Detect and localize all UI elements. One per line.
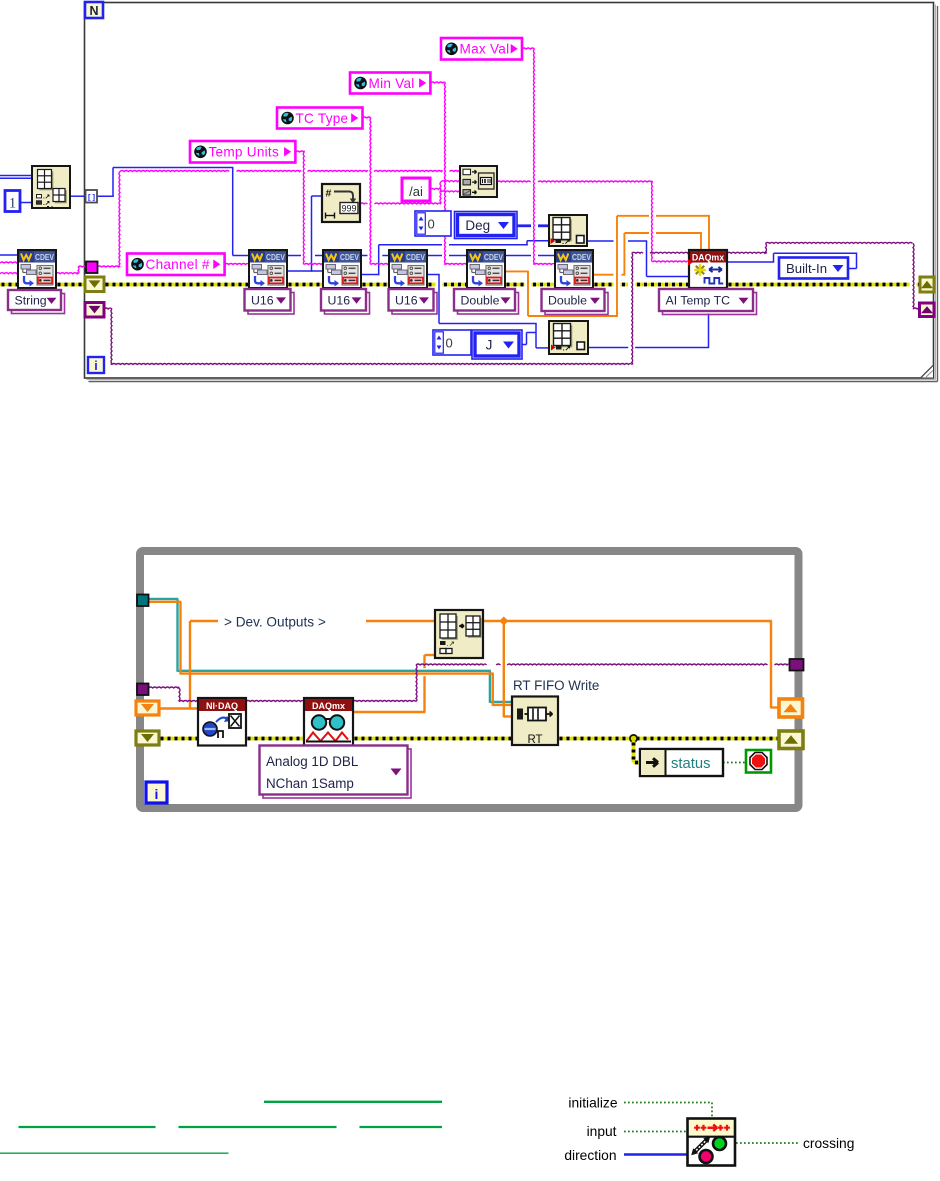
svg-text:TC Type: TC Type bbox=[296, 111, 349, 126]
iteration terminal i while bbox=[146, 782, 167, 803]
wire J ring to icon3 bbox=[522, 344, 527, 346]
index array icon2 bbox=[549, 215, 587, 246]
VI1 CDEV U16 bbox=[249, 250, 287, 288]
wire 999 icon out to format icon bbox=[360, 203, 368, 204]
svg-text:NI·DAQ: NI·DAQ bbox=[206, 701, 238, 711]
ring U16 third bbox=[392, 293, 437, 315]
ring Analog 1D DBL NChan 1Samp bbox=[263, 749, 411, 798]
VI3 CDEV U16 bbox=[389, 250, 427, 288]
wire format icon out to DAQmx bbox=[497, 181, 531, 182]
status indicator bbox=[640, 749, 723, 776]
svg-text:DAQmx: DAQmx bbox=[312, 701, 345, 711]
ring AI Temp TC bbox=[663, 293, 757, 315]
ring Double first bbox=[458, 293, 519, 315]
svg-text:#: # bbox=[326, 188, 332, 200]
wire orange DAQmx read out to convert icon bbox=[353, 711, 425, 713]
VI5 CDEV Double bbox=[555, 250, 593, 288]
svg-text:i: i bbox=[94, 359, 97, 373]
wire crossing dotted bbox=[736, 1142, 799, 1144]
green rule mid left bbox=[19, 1126, 156, 1128]
svg-text:Double: Double bbox=[461, 293, 500, 307]
svg-text:Analog 1D DBL: Analog 1D DBL bbox=[266, 754, 358, 769]
svg-text:CDEV: CDEV bbox=[35, 253, 54, 262]
wire blue chain VI1-VI2 bbox=[287, 255, 301, 257]
tunnel teal left bbox=[137, 595, 149, 607]
DAQmx create channel VI bbox=[689, 250, 727, 288]
svg-text:Deg: Deg bbox=[465, 218, 490, 233]
svg-text:J: J bbox=[486, 337, 493, 352]
svg-text:CDEV: CDEV bbox=[266, 253, 285, 262]
svg-text:0: 0 bbox=[446, 335, 453, 350]
svg-text:/ai: /ai bbox=[409, 184, 423, 199]
wire DAQmx to Built-In ring bbox=[727, 261, 774, 263]
wire orange data from tunnel bbox=[148, 601, 181, 603]
error wire main line bbox=[0, 283, 18, 287]
svg-text:initialize: initialize bbox=[568, 1096, 617, 1111]
svg-text:.↗: .↗ bbox=[563, 344, 571, 353]
ring Built-In bbox=[779, 258, 848, 279]
wire array into build-array icon bbox=[0, 175, 32, 177]
label Temp Units bbox=[190, 141, 295, 163]
ring U16 first bbox=[248, 293, 294, 315]
svg-text:.↗: .↗ bbox=[562, 237, 570, 246]
ring String bbox=[12, 294, 65, 314]
build array icon bbox=[32, 166, 70, 208]
svg-text:AI Temp TC: AI Temp TC bbox=[666, 294, 731, 308]
NI-DAQ VI bbox=[198, 698, 246, 746]
wire icon to tunnel bbox=[70, 195, 86, 197]
pink dot bbox=[698, 1149, 714, 1165]
shift register right olive bbox=[920, 277, 934, 292]
wire tunnel to VI chain bbox=[97, 195, 114, 197]
wire blue chain VI2-VI3 bbox=[361, 255, 368, 257]
wire direction blue bbox=[624, 1153, 687, 1155]
ring U16 second bbox=[325, 293, 370, 315]
wire icon2 to DAQmx bbox=[587, 240, 614, 242]
loop stop terminal bbox=[746, 750, 771, 773]
ring Double second bbox=[545, 293, 608, 315]
number-to-string 999 icon bbox=[322, 184, 360, 222]
wire VI2 out up to index icon2 bbox=[361, 274, 379, 276]
wire Temp Units down to VI2 bbox=[295, 151, 304, 152]
loop resize corner bbox=[921, 366, 933, 378]
svg-text:RT: RT bbox=[527, 734, 542, 746]
svg-text:Temp Units: Temp Units bbox=[209, 145, 280, 160]
wire orange VI5 to DAQmx bbox=[593, 274, 614, 276]
wire VI0 to magenta tunnel bbox=[56, 273, 78, 274]
shift register left olive bbox=[85, 277, 104, 292]
wire orange dev outputs bbox=[159, 707, 198, 709]
wire variant magenta into VI0 from edge bbox=[0, 262, 18, 263]
label Min Val bbox=[350, 73, 430, 94]
svg-text:crossing: crossing bbox=[803, 1136, 854, 1151]
VI2 CDEV U16 bbox=[323, 250, 361, 288]
svg-text:CDEV: CDEV bbox=[572, 253, 591, 262]
wire input dotted bbox=[624, 1131, 687, 1133]
svg-text:direction: direction bbox=[564, 1148, 616, 1163]
format into string icon bbox=[460, 166, 497, 197]
convert 2D array icon bbox=[435, 610, 483, 658]
wire Max Val down to VI5 bbox=[522, 48, 535, 49]
VI4 CDEV Double bbox=[467, 250, 505, 288]
label /ai constant bbox=[402, 178, 430, 201]
svg-text:Built-In: Built-In bbox=[786, 261, 827, 276]
loop count terminal N bbox=[85, 2, 103, 18]
label TC Type bbox=[277, 108, 363, 129]
wire orange VI4 to DAQmx bbox=[505, 270, 529, 272]
wire icon3 to AI Temp TC ring bbox=[588, 347, 628, 349]
index array icon3 bbox=[549, 321, 588, 354]
crossing VI icon bbox=[688, 1119, 736, 1166]
svg-text:0: 0 bbox=[428, 216, 435, 231]
svg-text:U16: U16 bbox=[328, 293, 351, 307]
green rule mid center bbox=[179, 1126, 337, 1128]
svg-text:Channel #: Channel # bbox=[146, 257, 210, 272]
svg-text:status: status bbox=[671, 756, 710, 772]
svg-text:i: i bbox=[155, 786, 159, 802]
svg-text:999: 999 bbox=[341, 204, 356, 214]
svg-text:> Dev. Outputs >: > Dev. Outputs > bbox=[224, 615, 326, 630]
wire /ai label to format icon bbox=[430, 188, 441, 189]
svg-text:N: N bbox=[89, 4, 98, 18]
wire initialize dotted bbox=[624, 1102, 712, 1104]
error junction to status bbox=[630, 735, 637, 742]
for loop N=channels border bbox=[85, 3, 934, 379]
green dot bbox=[712, 1136, 728, 1152]
while loop border bbox=[140, 551, 799, 808]
svg-text:Max Val: Max Val bbox=[460, 42, 510, 57]
constant 1 bbox=[5, 191, 20, 212]
wire blue chain VI4-VI5 bbox=[505, 255, 531, 257]
wire blue chain VI3-VI4 bbox=[427, 255, 442, 257]
svg-text:NChan 1Samp: NChan 1Samp bbox=[266, 776, 354, 791]
numeric 0 second bbox=[433, 330, 471, 355]
shift register orange right bbox=[779, 699, 803, 717]
svg-text:.↗: .↗ bbox=[447, 639, 455, 648]
svg-text:String: String bbox=[15, 294, 47, 308]
tunnel purple right bbox=[790, 659, 804, 671]
svg-text:U16: U16 bbox=[251, 293, 274, 307]
shift register olive left bbox=[136, 731, 159, 745]
svg-text:[ ]: [ ] bbox=[88, 193, 96, 202]
svg-text:Min Val: Min Val bbox=[369, 76, 415, 91]
svg-text:.↗: .↗ bbox=[43, 200, 51, 207]
numeric 0 first bbox=[415, 211, 451, 236]
RT FIFO write VI bbox=[512, 697, 558, 746]
svg-text:CDEV: CDEV bbox=[406, 253, 425, 262]
wire orange icon out to tunnel bbox=[483, 620, 772, 622]
green rule mid right bbox=[360, 1126, 443, 1128]
tunnel magenta variant bbox=[86, 262, 98, 274]
shift register left maroon bbox=[85, 303, 104, 318]
wire VI3 out down to icon3 bbox=[427, 274, 440, 276]
svg-text:CDEV: CDEV bbox=[340, 253, 359, 262]
label Max Val bbox=[441, 38, 522, 60]
label Channel # bbox=[127, 254, 225, 276]
wire blue into VI0 from edge bbox=[0, 254, 18, 256]
wire purple variant loop bbox=[149, 687, 179, 688]
wire constant 1 to icon bbox=[20, 202, 33, 204]
shift register orange left bbox=[136, 701, 159, 715]
wire purple shift register to DAQmx loop bbox=[104, 308, 112, 309]
svg-text:RT FIFO Write: RT FIFO Write bbox=[513, 678, 599, 693]
wire Deg ring to icon2 bbox=[517, 224, 531, 227]
ring J enum bbox=[472, 330, 522, 359]
wire teal task from tunnel bbox=[148, 598, 178, 600]
svg-text:DAQmx: DAQmx bbox=[692, 253, 724, 263]
green rule lower thin bbox=[0, 1152, 229, 1154]
svg-text:input: input bbox=[587, 1124, 617, 1139]
VI String CDEV bbox=[18, 250, 56, 288]
wire magenta tunnel to format icon bbox=[98, 266, 120, 267]
svg-text:CDEV: CDEV bbox=[484, 253, 503, 262]
svg-text:U16: U16 bbox=[395, 293, 418, 307]
svg-text:1: 1 bbox=[9, 196, 17, 212]
tunnel purple left bbox=[137, 684, 149, 696]
svg-text:Double: Double bbox=[548, 294, 587, 308]
green rule upper bbox=[264, 1101, 442, 1103]
shift register olive right bbox=[779, 731, 803, 749]
ring Deg enum bbox=[455, 212, 518, 239]
tunnel indexing bbox=[86, 190, 98, 203]
iteration terminal i bbox=[88, 357, 104, 373]
shift register right maroon bbox=[920, 303, 935, 317]
label Dev Outputs wire label bbox=[218, 612, 366, 629]
wire TC Type down to VI3 bbox=[363, 117, 371, 118]
DAQmx read VI bbox=[304, 698, 353, 746]
wire Channel# label to VI1 bbox=[225, 264, 249, 265]
wire Min Val down to VI4 bbox=[430, 82, 445, 83]
wire VI1 out to 999 icon and VI2 bbox=[287, 270, 312, 272]
error wire while loop bbox=[159, 737, 198, 741]
wire boolean status to stop bbox=[723, 762, 746, 764]
